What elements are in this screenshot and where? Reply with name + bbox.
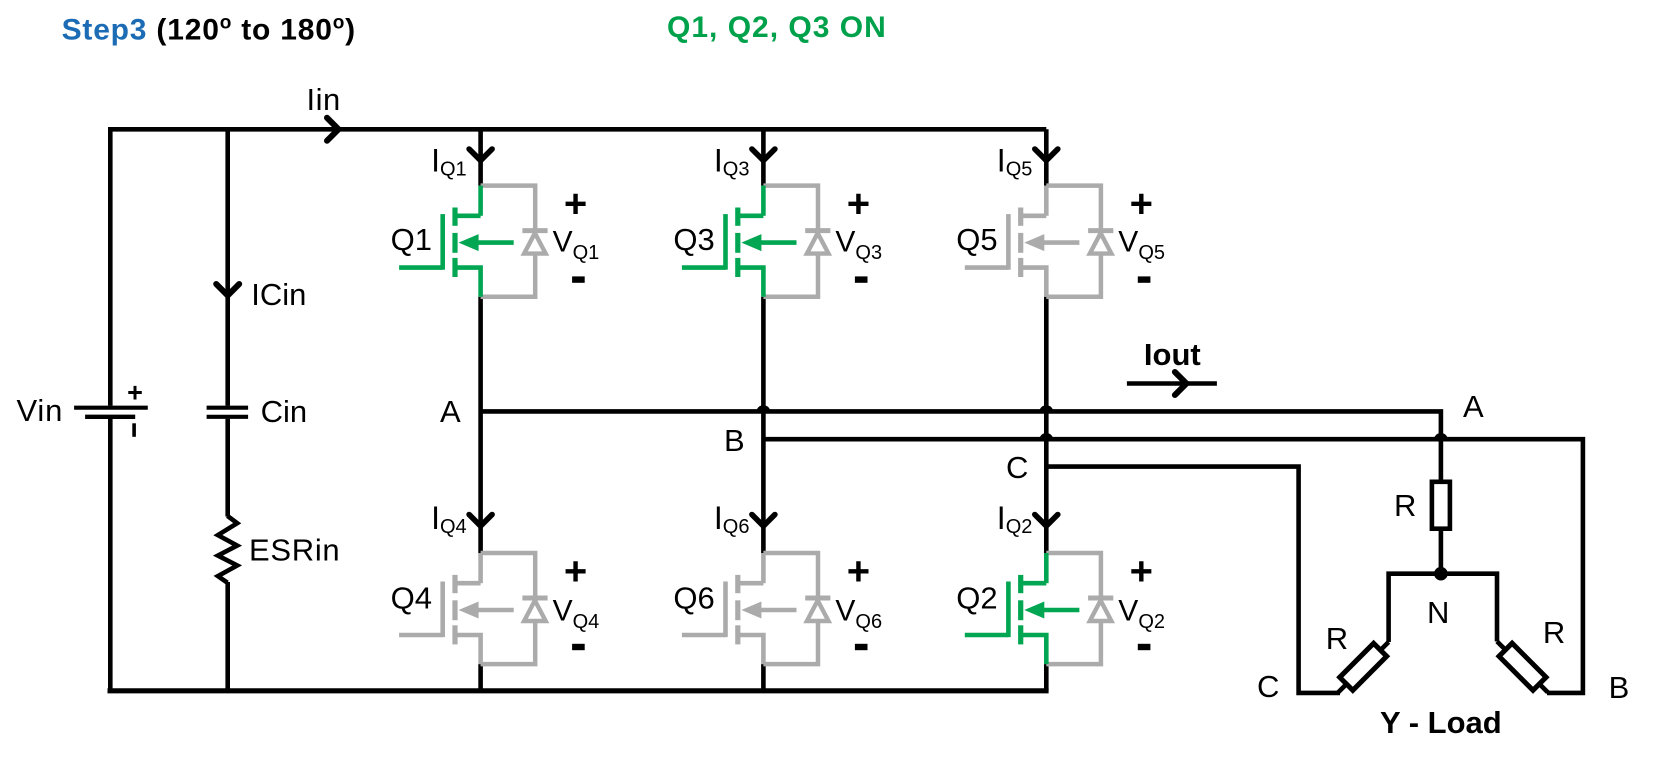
- svg-text:Iin: Iin: [307, 82, 341, 117]
- svg-text:+: +: [1130, 182, 1153, 226]
- svg-text:+: +: [564, 549, 587, 593]
- svg-text:B: B: [1609, 670, 1630, 705]
- svg-text:Q1: Q1: [391, 222, 432, 257]
- svg-text:+: +: [847, 549, 870, 593]
- svg-text:Q2: Q2: [956, 581, 997, 616]
- svg-text:Iout: Iout: [1144, 337, 1201, 372]
- svg-text:ESRin: ESRin: [249, 533, 340, 568]
- svg-text:R: R: [1394, 488, 1416, 523]
- svg-text:B: B: [724, 423, 745, 458]
- svg-text:Q5: Q5: [956, 222, 997, 257]
- svg-text:ICin: ICin: [251, 277, 306, 312]
- svg-text:Q6: Q6: [673, 581, 714, 616]
- svg-text:+: +: [1130, 549, 1153, 593]
- svg-text:Q3: Q3: [673, 222, 714, 257]
- svg-text:Step3 (120o to 180o): Step3 (120o to 180o): [62, 13, 356, 47]
- svg-text:Y - Load: Y - Load: [1380, 705, 1502, 740]
- svg-text:+: +: [847, 182, 870, 226]
- svg-text:R: R: [1543, 615, 1565, 650]
- svg-text:Cin: Cin: [261, 394, 308, 429]
- svg-text:Q4: Q4: [391, 581, 432, 616]
- svg-text:+: +: [127, 378, 143, 408]
- svg-text:Vin: Vin: [17, 393, 64, 428]
- svg-text:C: C: [1257, 669, 1279, 704]
- svg-text:C: C: [1006, 450, 1028, 485]
- svg-text:Q1, Q2, Q3 ON: Q1, Q2, Q3 ON: [667, 11, 887, 44]
- svg-text:+: +: [564, 182, 587, 226]
- svg-text:A: A: [440, 394, 461, 429]
- svg-text:A: A: [1463, 389, 1484, 424]
- svg-text:N: N: [1427, 595, 1449, 630]
- svg-text:R: R: [1326, 621, 1348, 656]
